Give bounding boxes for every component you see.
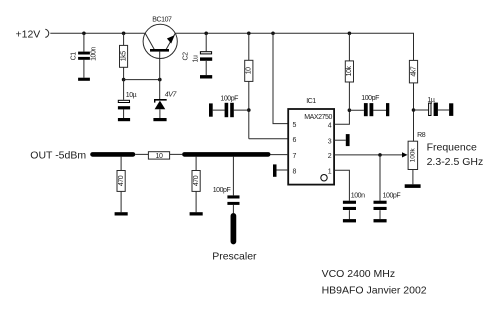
- svg-text:Frequence: Frequence: [427, 142, 477, 154]
- svg-text:3: 3: [328, 139, 332, 146]
- svg-text:470: 470: [118, 175, 125, 186]
- svg-text:6: 6: [293, 137, 297, 144]
- svg-text:100k: 100k: [410, 148, 417, 163]
- svg-text:10k: 10k: [346, 65, 353, 76]
- svg-text:4k7: 4k7: [410, 66, 417, 76]
- svg-text:100n: 100n: [351, 192, 365, 199]
- svg-text:1u: 1u: [192, 55, 199, 62]
- svg-text:C1: C1: [71, 52, 78, 61]
- svg-text:R8: R8: [417, 132, 426, 139]
- svg-text:4V7: 4V7: [165, 91, 178, 98]
- svg-text:100n: 100n: [90, 47, 97, 61]
- svg-text:+12V: +12V: [16, 29, 41, 41]
- svg-text:2.3-2.5 GHz: 2.3-2.5 GHz: [427, 156, 484, 168]
- svg-text:10µ: 10µ: [126, 92, 137, 99]
- svg-text:VCO 2400 MHz: VCO 2400 MHz: [322, 268, 396, 280]
- svg-text:100pF: 100pF: [213, 187, 231, 194]
- svg-text:OUT -5dBm: OUT -5dBm: [30, 149, 86, 161]
- svg-text:1µ: 1µ: [427, 97, 434, 104]
- svg-text:C2: C2: [182, 52, 189, 61]
- svg-text:BC107: BC107: [152, 16, 172, 23]
- svg-text:5: 5: [293, 122, 297, 129]
- svg-text:8: 8: [293, 168, 297, 175]
- svg-text:IC1: IC1: [306, 98, 316, 105]
- svg-text:10: 10: [156, 153, 163, 160]
- svg-text:Prescaler: Prescaler: [212, 250, 257, 262]
- svg-text:2: 2: [328, 153, 332, 160]
- svg-text:100pF: 100pF: [383, 192, 401, 199]
- svg-text:10: 10: [246, 67, 253, 74]
- svg-text:4: 4: [328, 123, 332, 130]
- svg-text:MAX2750: MAX2750: [304, 114, 332, 121]
- svg-text:470: 470: [193, 175, 200, 186]
- svg-text:1: 1: [328, 169, 332, 176]
- svg-text:100pF: 100pF: [361, 95, 379, 102]
- svg-text:HB9AFO Janvier 2002: HB9AFO Janvier 2002: [322, 285, 427, 297]
- svg-text:100pF: 100pF: [220, 96, 238, 103]
- svg-text:1k5: 1k5: [120, 51, 127, 61]
- svg-text:7: 7: [293, 153, 297, 160]
